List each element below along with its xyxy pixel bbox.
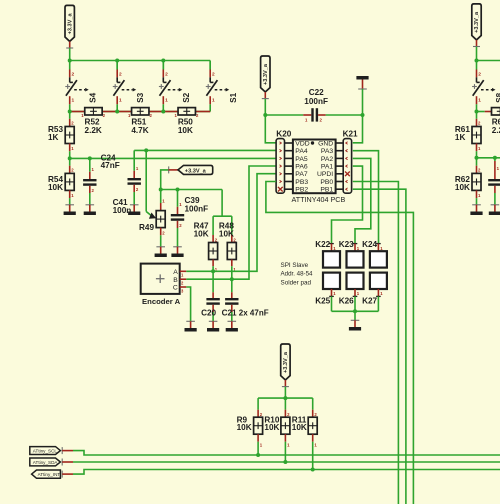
svg-text:K27: K27 — [362, 296, 377, 305]
svg-text:47nF: 47nF — [101, 161, 120, 170]
svg-text:10K: 10K — [194, 229, 209, 238]
svg-text:PA2: PA2 — [321, 156, 334, 163]
svg-text:100nF: 100nF — [185, 204, 209, 213]
svg-text:10K: 10K — [237, 423, 252, 432]
svg-text:PB3: PB3 — [295, 179, 308, 186]
svg-text:PA4: PA4 — [295, 148, 308, 155]
svg-text:2: 2 — [165, 71, 168, 77]
svg-text:R49: R49 — [139, 223, 154, 232]
svg-text:B: B — [173, 277, 178, 284]
svg-text:1: 1 — [212, 98, 215, 104]
svg-text:2: 2 — [478, 71, 481, 77]
svg-text:K24: K24 — [362, 240, 377, 249]
svg-text:K26: K26 — [339, 296, 354, 305]
svg-text:PA6: PA6 — [295, 164, 308, 171]
svg-text:K21: K21 — [343, 129, 358, 138]
svg-text:+3.3V_a: +3.3V_a — [263, 63, 269, 85]
svg-text:Encoder A: Encoder A — [142, 297, 181, 306]
svg-text:2x 47nF: 2x 47nF — [239, 309, 269, 318]
svg-text:1: 1 — [165, 98, 168, 104]
svg-text:100nF: 100nF — [304, 97, 328, 106]
svg-text:10K: 10K — [178, 126, 193, 135]
svg-text:1K: 1K — [455, 133, 466, 142]
svg-text:Addr. 48-54: Addr. 48-54 — [281, 271, 314, 278]
svg-text:C: C — [173, 285, 178, 292]
svg-text:ATtiny_SDA: ATtiny_SDA — [33, 460, 59, 465]
svg-text:ATTINY404 PCB: ATTINY404 PCB — [292, 195, 346, 204]
svg-text:VDD: VDD — [295, 140, 309, 147]
svg-text:PA5: PA5 — [295, 156, 308, 163]
svg-text:Solder pad: Solder pad — [281, 279, 312, 286]
svg-text:K25: K25 — [315, 296, 330, 305]
svg-text:S8: S8 — [495, 92, 500, 102]
svg-text:2: 2 — [212, 71, 215, 77]
svg-text:K23: K23 — [339, 240, 354, 249]
svg-text:ATtiny_INT: ATtiny_INT — [38, 472, 61, 477]
svg-text:PA7: PA7 — [295, 171, 308, 178]
svg-text:10K: 10K — [264, 423, 279, 432]
svg-text:1: 1 — [119, 98, 122, 104]
svg-text:PB0: PB0 — [320, 179, 333, 186]
svg-text:+3.3V_a: +3.3V_a — [283, 351, 289, 373]
svg-text:ATtiny_SCL: ATtiny_SCL — [33, 449, 58, 454]
svg-text:10K: 10K — [219, 229, 234, 238]
svg-text:UPDI: UPDI — [317, 171, 333, 178]
svg-text:10K: 10K — [292, 423, 307, 432]
svg-text:S4: S4 — [88, 92, 97, 102]
svg-text:10K: 10K — [455, 183, 470, 192]
svg-text:+3.3V_a: +3.3V_a — [474, 11, 480, 33]
svg-text:1: 1 — [478, 98, 481, 104]
svg-text:C20: C20 — [201, 309, 216, 318]
svg-text:+3.3V_a: +3.3V_a — [67, 13, 73, 35]
svg-text:K22: K22 — [315, 240, 330, 249]
svg-text:S1: S1 — [229, 92, 238, 102]
svg-text:2.2K: 2.2K — [85, 126, 102, 135]
svg-text:GND: GND — [318, 140, 333, 147]
svg-text:PA3: PA3 — [321, 148, 334, 155]
svg-text:1K: 1K — [48, 133, 59, 142]
svg-text:2.2K: 2.2K — [492, 126, 500, 135]
svg-text:4.7K: 4.7K — [131, 126, 148, 135]
svg-text:A: A — [173, 269, 178, 276]
svg-text:2: 2 — [72, 71, 75, 77]
svg-text:2: 2 — [119, 71, 122, 77]
svg-text:C21: C21 — [222, 309, 237, 318]
svg-text:10K: 10K — [48, 183, 63, 192]
svg-text:PB2: PB2 — [295, 187, 308, 194]
svg-text:PA1: PA1 — [321, 164, 334, 171]
svg-text:+3.3V_a: +3.3V_a — [185, 168, 207, 174]
svg-text:K20: K20 — [276, 129, 291, 138]
svg-text:PB1: PB1 — [320, 187, 333, 194]
svg-text:1: 1 — [72, 98, 75, 104]
svg-text:S2: S2 — [182, 92, 191, 102]
svg-text:SPI Slave: SPI Slave — [281, 262, 309, 269]
svg-text:S3: S3 — [136, 92, 145, 102]
